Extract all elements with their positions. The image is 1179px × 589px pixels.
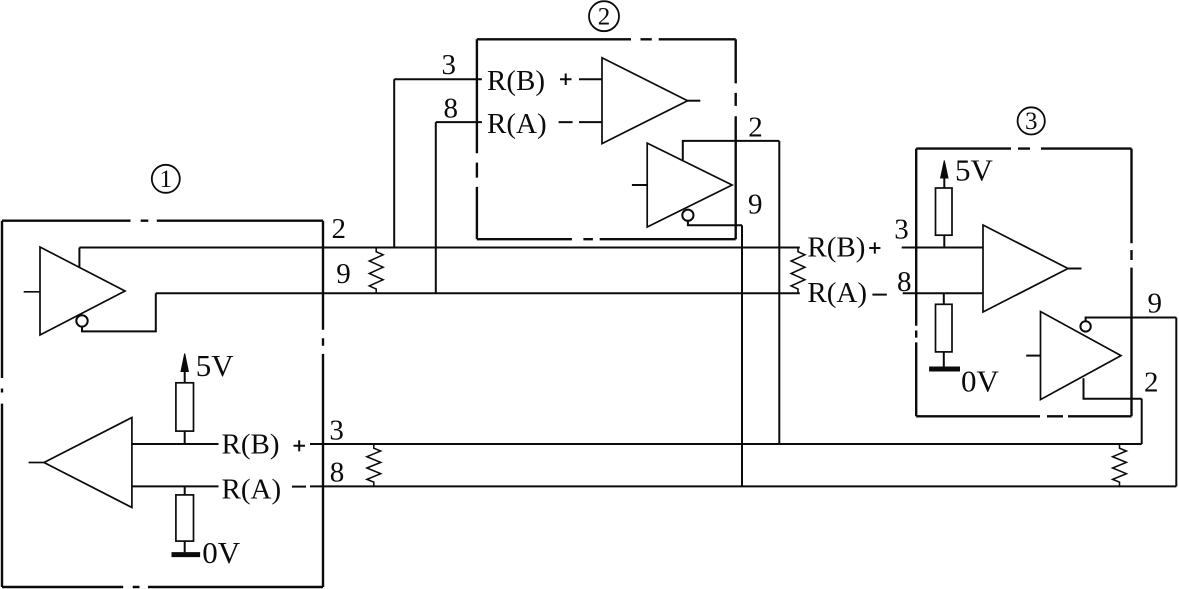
- svg-text:5V: 5V: [955, 153, 994, 188]
- svg-text:8: 8: [330, 457, 345, 489]
- svg-text:2: 2: [331, 213, 346, 245]
- svg-text:8: 8: [443, 93, 458, 125]
- svg-text:2: 2: [598, 3, 611, 30]
- svg-text:R(B): R(B): [807, 231, 865, 263]
- svg-text:2: 2: [1144, 366, 1159, 398]
- svg-text:3: 3: [442, 49, 457, 81]
- svg-text:3: 3: [894, 214, 909, 246]
- svg-text:0V: 0V: [961, 364, 1000, 399]
- svg-text:9: 9: [336, 258, 351, 290]
- svg-text:8: 8: [897, 266, 912, 298]
- svg-text:3: 3: [1025, 108, 1038, 135]
- svg-text:R(B): R(B): [487, 65, 545, 97]
- svg-text:1: 1: [160, 166, 173, 193]
- svg-text:R(A): R(A): [222, 473, 282, 505]
- svg-text:R(A): R(A): [487, 108, 547, 140]
- svg-text:R(A): R(A): [807, 277, 867, 309]
- svg-text:2: 2: [748, 111, 763, 143]
- svg-text:3: 3: [329, 415, 344, 447]
- svg-text:R(B): R(B): [222, 428, 280, 460]
- svg-text:0V: 0V: [202, 535, 241, 570]
- svg-text:9: 9: [748, 189, 763, 221]
- svg-text:5V: 5V: [196, 348, 235, 383]
- svg-text:9: 9: [1148, 287, 1163, 319]
